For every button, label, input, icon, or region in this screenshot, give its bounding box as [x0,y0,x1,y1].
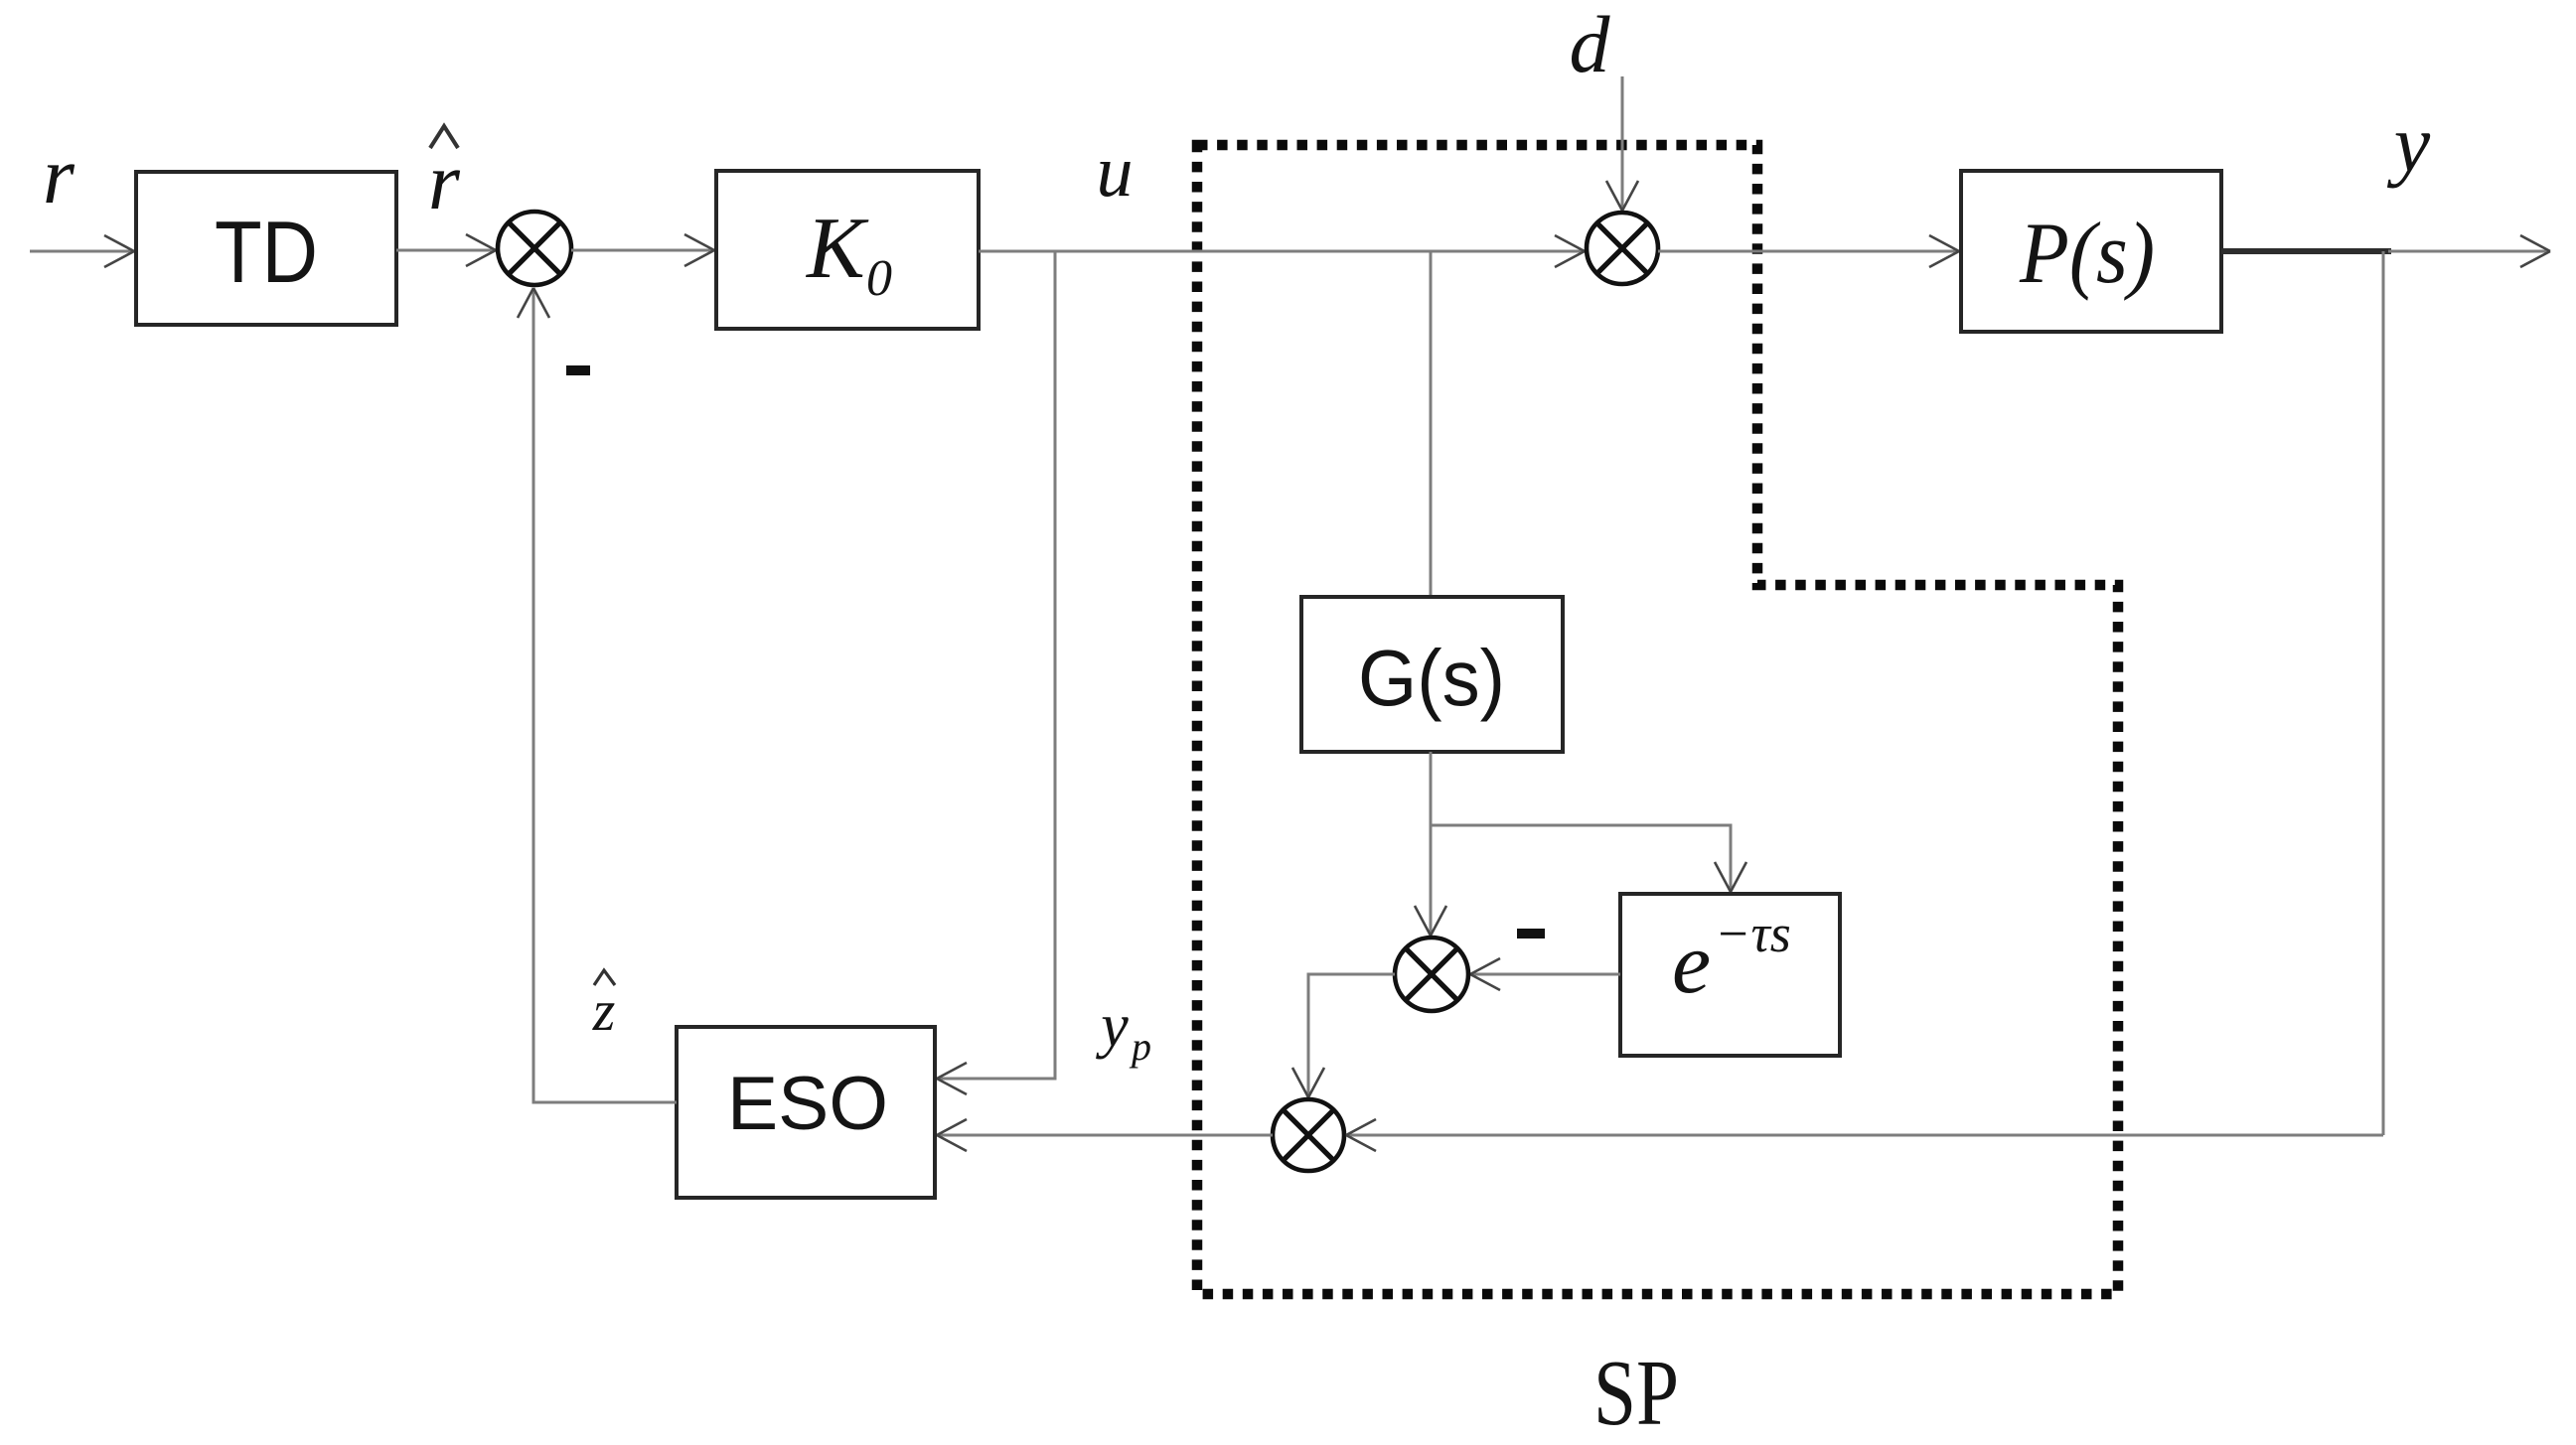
wire: u branch down to G(s) [1430,251,1433,597]
wire: y feedback into S4 [1346,1119,2383,1151]
block K0 [716,171,979,329]
svg-text:p: p [1129,1024,1151,1069]
block P(s) [1961,171,2221,332]
wire: u line from K0 to summing junction S2 [979,235,1585,267]
label z-hat [592,970,616,1043]
block TD [136,172,396,325]
svg-text:−τs: −τs [1715,904,1791,963]
block delay e^-ts [1620,894,1840,1056]
wire: d input into S2 [1606,76,1638,211]
svg-text:ESO: ESO [727,1062,888,1146]
svg-text:y: y [1095,992,1129,1060]
svg-text:SP: SP [1593,1342,1679,1445]
summing junction S1 [498,212,571,285]
svg-text:K: K [805,201,869,297]
block G(s) [1301,597,1563,752]
svg-text:G(s): G(s) [1358,634,1505,722]
wire: S4 output to ESO [937,1119,1273,1151]
summing junction S4 [1273,1099,1344,1171]
wire: P(s) output y (thick segment then arrow) [2221,235,2550,267]
label r-hat [428,126,461,226]
svg-text:y: y [2387,98,2431,189]
svg-text:0: 0 [866,250,892,307]
svg-text:r: r [43,130,76,220]
label y_p [1095,992,1151,1069]
minus sign at S3 input [1517,929,1545,939]
svg-text:P(s): P(s) [2019,206,2155,302]
summing junction S3 [1395,938,1468,1011]
wire: r input into TD [30,235,134,267]
svg-text:r: r [428,136,461,226]
svg-text:TD: TD [215,203,318,301]
svg-text:u: u [1097,131,1134,213]
wire: S2 to P(s) [1658,235,1959,267]
minus sign at S1 lower input [566,365,590,375]
wire: delay output to S3 [1470,958,1620,990]
svg-text:e: e [1672,916,1711,1012]
wire: u branch down and into ESO [937,251,1055,1094]
wire: G(s) down into S3 [1415,752,1446,936]
wire: branch from G(s) output to delay block [1431,825,1746,892]
dotted SP region boundary [1197,145,2118,1294]
wire: y feedback branch down [2382,251,2385,1135]
svg-text:z: z [592,978,616,1043]
wire: ESO output z-hat up into S1 [518,288,677,1102]
wire: TD output to summing junction S1 [396,234,496,266]
summing junction S2 [1587,213,1658,284]
wire: S1 to K0 [571,234,714,266]
wire: S3 output to S4 [1292,974,1395,1097]
svg-text:d: d [1570,0,1611,89]
block ESO [677,1027,935,1198]
